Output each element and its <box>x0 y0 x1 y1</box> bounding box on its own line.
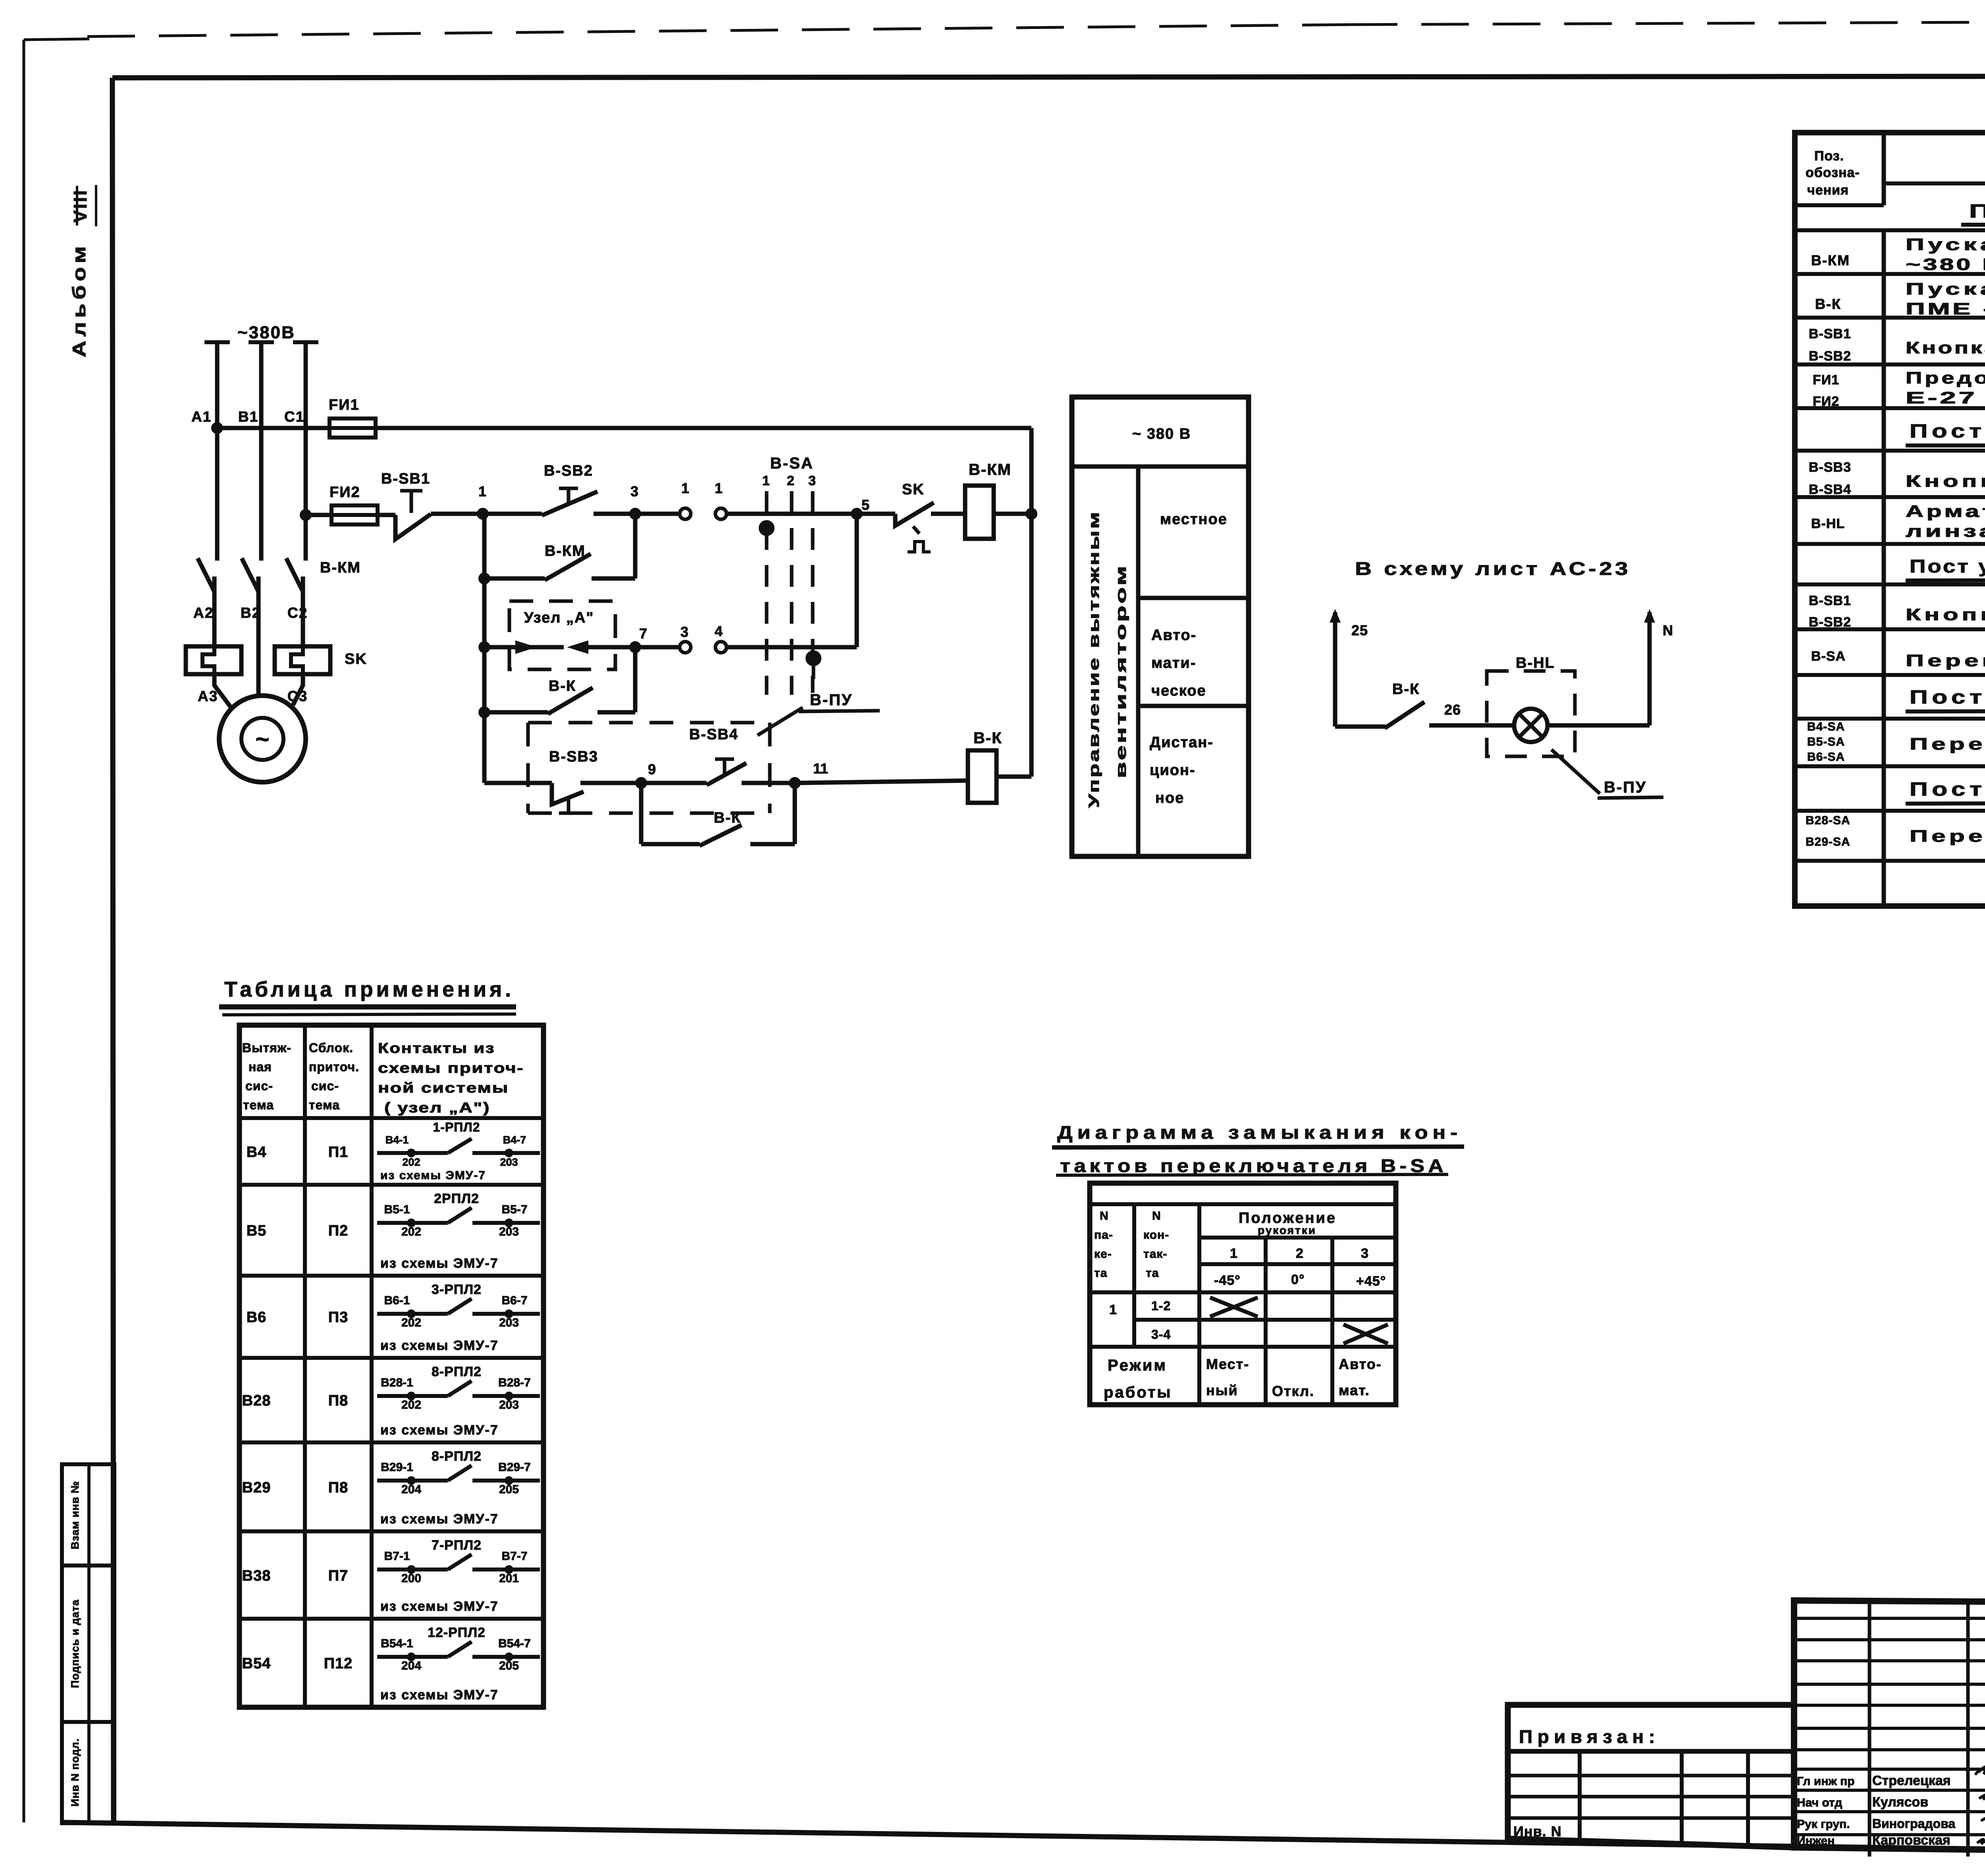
svg-text:3-РПЛ2: 3-РПЛ2 <box>432 1282 482 1297</box>
svg-text:В-SB1: В-SB1 <box>1809 593 1851 608</box>
svg-text:~: ~ <box>255 726 269 752</box>
svg-text:В7-7: В7-7 <box>501 1550 527 1563</box>
svg-text:Пост управления ПП4: Пост управления ПП4 <box>1910 779 1985 800</box>
thermal element SK phase A <box>186 646 241 674</box>
svg-text:В1: В1 <box>238 409 258 425</box>
contact B-K bypass lower <box>639 783 644 844</box>
svg-text:В-КМ: В-КМ <box>1811 252 1850 268</box>
node 5 junction dot <box>851 508 863 520</box>
svg-text:из схемы ЭМУ-7: из схемы ЭМУ-7 <box>380 1599 499 1614</box>
svg-text:~380В: ~380В <box>237 323 295 342</box>
node right bus junction <box>1025 508 1037 520</box>
wire lamp circuit left riser 25 <box>1333 612 1337 644</box>
svg-text:203: 203 <box>499 1316 519 1329</box>
svg-text:Авто-: Авто- <box>1151 627 1197 644</box>
svg-text:местное: местное <box>1160 511 1228 528</box>
node B-PU leader lamp <box>1551 750 1600 794</box>
node B-SA diagram table <box>1090 1183 1396 1405</box>
svg-text:205: 205 <box>499 1659 519 1672</box>
svg-text:В6-7: В6-7 <box>501 1294 527 1307</box>
svg-text:5: 5 <box>861 497 869 513</box>
svg-text:В28-7: В28-7 <box>498 1376 531 1389</box>
frame inner left <box>112 78 114 1823</box>
svg-text:В-HL: В-HL <box>1811 516 1845 531</box>
svg-text:FИ2: FИ2 <box>330 484 360 501</box>
svg-text:Взам инв №: Взам инв № <box>69 1481 81 1549</box>
svg-text:203: 203 <box>500 1156 518 1168</box>
node 11 junction <box>789 777 801 789</box>
wire outer border top dash-dot line <box>87 25 1350 37</box>
svg-text:0°: 0° <box>1291 1272 1305 1287</box>
svg-text:В-КМ: В-КМ <box>545 543 586 559</box>
svg-text:В-К: В-К <box>549 678 576 694</box>
svg-text:205: 205 <box>499 1483 519 1496</box>
svg-text:В-К: В-К <box>1392 681 1420 698</box>
svg-text:25: 25 <box>1351 622 1368 638</box>
svg-text:В6-1: В6-1 <box>384 1294 410 1307</box>
svg-text:П12: П12 <box>324 1655 353 1672</box>
node B-PU dashed enclosure <box>528 721 770 725</box>
svg-text:В28: В28 <box>242 1392 271 1409</box>
svg-text:Сблок.: Сблок. <box>309 1041 353 1055</box>
svg-text:Инв. N: Инв. N <box>1513 1823 1562 1839</box>
left margin stamp boxes <box>62 1464 114 1823</box>
svg-text:ПМЕ - 081, катушка ~380 В.: ПМЕ - 081, катушка ~380 В. <box>1906 299 1985 318</box>
svg-text:В6-SA: В6-SA <box>1807 750 1845 764</box>
terminal circle 1a <box>680 508 691 519</box>
svg-text:Пост управления В-ПУ: Пост управления В-ПУ <box>1910 421 1985 442</box>
svg-text:FИ1: FИ1 <box>329 397 360 413</box>
svg-text:Переключатель: Переключатель <box>1910 735 1985 753</box>
wire node7 down to B-K branch <box>633 647 638 712</box>
svg-text:202: 202 <box>402 1156 420 1168</box>
wire lamp circuit right riser N <box>1648 644 1652 725</box>
wire to switch region <box>727 512 895 516</box>
svg-text:С1: С1 <box>284 409 304 425</box>
svg-text:Кулясов: Кулясов <box>1872 1795 1928 1810</box>
svg-text:линза зеленого цвета: линза зеленого цвета <box>1906 522 1985 540</box>
wire L2 control line with fuse FI2 <box>306 513 331 517</box>
svg-text:В6: В6 <box>247 1309 267 1326</box>
node 9 <box>635 777 647 789</box>
svg-text:+45°: +45° <box>1356 1274 1386 1289</box>
svg-text:3: 3 <box>630 483 638 499</box>
svg-text:В4-7: В4-7 <box>503 1134 526 1146</box>
svg-text:~380 В.: ~380 В. <box>1906 255 1985 274</box>
svg-text:В-КМ: В-КМ <box>969 461 1012 478</box>
svg-text:П2: П2 <box>328 1222 348 1239</box>
svg-text:Вытяж-: Вытяж- <box>242 1041 291 1055</box>
svg-text:П7: П7 <box>328 1568 348 1584</box>
wire distance control line <box>484 781 552 785</box>
svg-text:Управление вытяжным: Управление вытяжным <box>1086 510 1102 808</box>
svg-text:вентилятором: вентилятором <box>1113 564 1129 778</box>
wire right bus down from top line <box>1029 428 1034 514</box>
svg-text:Пускатель магнитный: Пускатель магнитный <box>1906 280 1985 298</box>
svg-text:А1: А1 <box>191 409 212 425</box>
svg-text:Гл инж пр: Гл инж пр <box>1797 1775 1855 1788</box>
svg-text:Переключатель: Переключатель <box>1906 651 1985 670</box>
svg-text:Поз.: Поз. <box>1814 148 1844 164</box>
node 7 <box>629 641 641 653</box>
svg-text:Предохранитель резьбовой: Предохранитель резьбовой <box>1906 368 1985 387</box>
svg-text:А2: А2 <box>193 605 214 621</box>
svg-text:Диаграмма замыкания кон-: Диаграмма замыкания кон- <box>1057 1122 1462 1143</box>
svg-text:2: 2 <box>787 473 794 488</box>
svg-text:из схемы ЭМУ-7: из схемы ЭМУ-7 <box>380 1256 499 1271</box>
svg-text:FИ1: FИ1 <box>1813 372 1839 388</box>
svg-text:В-SB2: В-SB2 <box>544 463 593 479</box>
svg-text:В-SB3: В-SB3 <box>1809 460 1851 475</box>
svg-text:В-SB4: В-SB4 <box>689 726 738 743</box>
svg-text:3-4: 3-4 <box>1151 1327 1171 1342</box>
svg-text:Привязан:: Привязан: <box>1519 1726 1660 1747</box>
terminal circle 4 <box>715 642 727 653</box>
svg-text:В5-7: В5-7 <box>501 1203 527 1216</box>
frame inner top <box>112 76 1985 78</box>
svg-text:1-2: 1-2 <box>1151 1299 1171 1313</box>
svg-text:Пост управления ПП3: Пост управления ПП3 <box>1910 687 1985 708</box>
svg-text:В5-1: В5-1 <box>384 1203 410 1216</box>
svg-text:N: N <box>1663 622 1673 638</box>
svg-text:N: N <box>1100 1209 1109 1222</box>
svg-text:Виноградова: Виноградова <box>1872 1816 1955 1831</box>
svg-text:В2: В2 <box>241 605 261 621</box>
svg-text:так-: так- <box>1143 1247 1167 1261</box>
svg-text:В28-1: В28-1 <box>381 1376 413 1389</box>
svg-text:9: 9 <box>648 761 656 777</box>
svg-text:200: 200 <box>401 1572 421 1585</box>
svg-text:кон-: кон- <box>1143 1228 1169 1242</box>
svg-text:Откл.: Откл. <box>1272 1383 1314 1399</box>
svg-text:N: N <box>1152 1209 1161 1222</box>
contact B-KM main phase C <box>286 558 303 592</box>
node application table <box>239 1025 543 1707</box>
contact B-KM main phase A <box>198 558 214 592</box>
svg-text:В4: В4 <box>247 1144 267 1161</box>
svg-text:обозна-: обозна- <box>1806 165 1860 180</box>
svg-text:мат.: мат. <box>1339 1382 1370 1398</box>
svg-text:В29-1: В29-1 <box>381 1461 413 1474</box>
svg-text:1: 1 <box>762 473 770 488</box>
svg-text:Инжен: Инжен <box>1797 1834 1835 1847</box>
wire heater outputs to motor <box>214 674 231 708</box>
svg-text:В-SA: В-SA <box>1811 649 1846 664</box>
svg-text:Контакты из: Контакты из <box>378 1040 495 1056</box>
svg-text:2РПЛ2: 2РПЛ2 <box>434 1191 479 1206</box>
svg-text:SK: SK <box>902 481 925 498</box>
svg-text:работы: работы <box>1104 1384 1172 1401</box>
svg-text:Авто-: Авто- <box>1339 1356 1382 1372</box>
lamp B-HL <box>1514 709 1548 742</box>
node B-HL dashed box <box>1487 671 1575 756</box>
svg-text:1: 1 <box>478 483 486 499</box>
svg-text:В-SB4: В-SB4 <box>1809 482 1851 497</box>
svg-text:тема: тема <box>243 1098 274 1112</box>
wire phase C bus <box>304 342 308 561</box>
svg-text:1: 1 <box>681 480 689 496</box>
wire uzel A line <box>478 641 490 653</box>
svg-text:1: 1 <box>715 480 723 496</box>
svg-text:3: 3 <box>808 473 816 488</box>
svg-text:П8: П8 <box>328 1479 348 1496</box>
node title block <box>1794 1600 1985 1857</box>
svg-text:Инв N подл.: Инв N подл. <box>69 1738 81 1807</box>
svg-text:Кнопка управления: Кнопка управления <box>1906 472 1985 490</box>
svg-text:В-ПУ: В-ПУ <box>810 691 853 709</box>
svg-text:11: 11 <box>813 760 828 777</box>
switch B-SA position dot packet2 <box>806 650 821 666</box>
wire node4 to vertical <box>727 645 857 650</box>
svg-text:202: 202 <box>401 1316 421 1329</box>
svg-text:3: 3 <box>680 624 688 640</box>
svg-text:из схемы ЭМУ-7: из схемы ЭМУ-7 <box>380 1512 499 1527</box>
svg-text:В-SB1: В-SB1 <box>1809 326 1851 341</box>
svg-text:В-SB3: В-SB3 <box>549 748 598 765</box>
svg-text:В-SB2: В-SB2 <box>1809 349 1851 364</box>
wire phases down to heaters <box>212 576 217 646</box>
svg-text:В-SB2: В-SB2 <box>1809 615 1851 630</box>
svg-text:~ 380 В: ~ 380 В <box>1132 426 1191 442</box>
svg-text:приточ.: приточ. <box>309 1060 359 1074</box>
svg-text:из схемы ЭМУ-7: из схемы ЭМУ-7 <box>380 1687 499 1702</box>
svg-text:ное: ное <box>1155 790 1184 806</box>
svg-text:мати-: мати- <box>1151 655 1196 671</box>
svg-text:202: 202 <box>401 1225 421 1238</box>
contact B-K aux upper <box>478 706 490 718</box>
svg-text:В-К: В-К <box>1815 296 1841 312</box>
svg-text:203: 203 <box>499 1225 519 1238</box>
svg-text:ная: ная <box>249 1060 272 1074</box>
svg-text:3: 3 <box>1361 1246 1370 1261</box>
svg-text:П1: П1 <box>328 1144 348 1161</box>
svg-text:Альбом: Альбом <box>69 242 89 357</box>
svg-text:рукоятки: рукоятки <box>1258 1224 1316 1236</box>
svg-text:7: 7 <box>639 625 647 642</box>
svg-text:Режим: Режим <box>1108 1357 1167 1374</box>
svg-text:В54-7: В54-7 <box>498 1637 531 1650</box>
wire phase A bus <box>215 342 220 561</box>
svg-text:8-РПЛ2: 8-РПЛ2 <box>432 1449 482 1464</box>
svg-text:Дистан-: Дистан- <box>1150 734 1214 751</box>
svg-text:В-HL: В-HL <box>1516 655 1555 671</box>
svg-text:та: та <box>1146 1267 1159 1280</box>
svg-text:ный: ный <box>1206 1382 1238 1398</box>
svg-text:Е-27 Iпл.вст.=6а: Е-27 Iпл.вст.=6а <box>1906 388 1985 407</box>
svg-text:Кнопка управления: Кнопка управления <box>1906 605 1985 624</box>
svg-text:26: 26 <box>1444 702 1461 718</box>
contact B-KM main phase B <box>242 558 258 592</box>
svg-text:В29-7: В29-7 <box>498 1461 531 1474</box>
svg-text:из схемы ЭМУ-7: из схемы ЭМУ-7 <box>380 1423 499 1438</box>
wire right bus <box>1029 514 1034 777</box>
wire phase B bus <box>259 342 264 561</box>
svg-text:В-ПУ: В-ПУ <box>1604 779 1647 796</box>
node 3 <box>629 508 641 520</box>
svg-text:8-РПЛ2: 8-РПЛ2 <box>432 1364 482 1379</box>
svg-text:А3: А3 <box>198 688 218 704</box>
node B-PU label leader <box>757 708 803 735</box>
svg-text:1-РПЛ2: 1-РПЛ2 <box>433 1120 480 1134</box>
node privyazan block <box>1508 1705 1794 1847</box>
terminal circle 3 <box>680 642 691 653</box>
node A1 junction <box>211 422 223 434</box>
svg-text:Карповская: Карповская <box>1872 1833 1950 1848</box>
node uzel A dashed box <box>509 601 615 669</box>
svg-text:2: 2 <box>1296 1246 1305 1261</box>
contact B-KM aux (self-hold) <box>478 573 490 584</box>
svg-text:1: 1 <box>1109 1302 1118 1317</box>
svg-text:Стрелецкая: Стрелецкая <box>1872 1773 1951 1788</box>
svg-text:Подпись и дата: Подпись и дата <box>69 1599 81 1688</box>
svg-text:FИ2: FИ2 <box>1813 394 1839 409</box>
svg-text:В5-SA: В5-SA <box>1807 735 1845 748</box>
svg-text:П8: П8 <box>328 1392 348 1409</box>
svg-text:Пост управления В38-ПУ1(В54-ПУ: Пост управления В38-ПУ1(В54-ПУ1) <box>1910 556 1985 576</box>
svg-text:тактов переключателя В-SA: тактов переключателя В-SA <box>1060 1155 1447 1176</box>
svg-text:сис-: сис- <box>311 1079 339 1093</box>
svg-text:В29: В29 <box>242 1479 271 1496</box>
svg-text:из схемы ЭМУ-7: из схемы ЭМУ-7 <box>380 1169 486 1182</box>
svg-text:Таблица применения.: Таблица применения. <box>224 978 514 1001</box>
svg-text:VIII: VIII <box>70 189 91 222</box>
svg-text:тема: тема <box>309 1098 340 1112</box>
switch B-SA position dot packet1 <box>759 520 775 536</box>
svg-text:В7-1: В7-1 <box>384 1550 410 1563</box>
svg-text:ческое: ческое <box>1151 683 1206 699</box>
svg-text:Рук груп.: Рук груп. <box>1797 1818 1850 1831</box>
svg-text:1: 1 <box>1230 1246 1239 1261</box>
svg-text:В-SA: В-SA <box>770 455 814 472</box>
svg-text:( узел „А"): ( узел „А") <box>384 1099 490 1116</box>
svg-text:сис-: сис- <box>245 1079 273 1093</box>
svg-text:201: 201 <box>499 1572 519 1585</box>
node 1 <box>477 508 489 520</box>
svg-text:-45°: -45° <box>1214 1273 1241 1288</box>
svg-text:В5: В5 <box>247 1222 267 1239</box>
svg-text:па-: па- <box>1094 1228 1113 1242</box>
svg-text:203: 203 <box>499 1398 519 1411</box>
contact B-K lamp <box>1335 725 1386 729</box>
svg-text:7-РПЛ2: 7-РПЛ2 <box>432 1538 482 1553</box>
svg-text:SK: SK <box>345 651 367 667</box>
svg-text:В4-SA: В4-SA <box>1807 720 1845 733</box>
svg-text:В-SB1: В-SB1 <box>381 470 430 487</box>
svg-text:Переключатель: Переключатель <box>1910 827 1985 845</box>
wire left bus from node 1 <box>482 514 487 783</box>
svg-text:В4-1: В4-1 <box>385 1134 409 1146</box>
svg-text:Пускатель магнитный: Пускатель магнитный <box>1906 235 1985 254</box>
svg-text:204: 204 <box>401 1659 421 1672</box>
svg-text:В-К: В-К <box>973 729 1002 747</box>
svg-text:С2: С2 <box>287 605 308 621</box>
svg-text:204: 204 <box>401 1483 421 1496</box>
svg-text:В54-1: В54-1 <box>381 1637 413 1650</box>
wire L1 top line with fuse FI1 <box>217 426 329 430</box>
svg-text:Кнопка управления КУ92-В3ТЧ-В: Кнопка управления КУ92-В3ТЧ-В <box>1906 338 1985 357</box>
svg-text:цион-: цион- <box>1150 762 1196 779</box>
svg-text:4: 4 <box>715 623 723 639</box>
svg-text:ке-: ке- <box>1094 1247 1112 1261</box>
node specification table <box>1795 133 1985 906</box>
wire outer border left <box>23 40 25 1822</box>
node control-mode table <box>1072 397 1249 856</box>
svg-text:схемы приточ-: схемы приточ- <box>378 1060 524 1076</box>
svg-text:В54: В54 <box>242 1655 271 1672</box>
svg-text:та: та <box>1094 1267 1107 1280</box>
svg-text:В29-SA: В29-SA <box>1806 835 1850 848</box>
svg-text:В-КМ: В-КМ <box>320 559 361 576</box>
svg-text:Арматура сигнальная: Арматура сигнальная <box>1906 502 1985 521</box>
svg-text:Мест-: Мест- <box>1206 1356 1249 1372</box>
motor M <box>219 696 306 782</box>
svg-text:202: 202 <box>401 1398 421 1411</box>
svg-text:Нач отд: Нач отд <box>1797 1796 1842 1809</box>
node C1 junction <box>300 509 312 521</box>
svg-text:В28-SA: В28-SA <box>1806 814 1850 827</box>
frame inner bottom <box>62 1822 1985 1857</box>
svg-text:В схему лист АС-23: В схему лист АС-23 <box>1355 558 1631 579</box>
svg-text:12-РПЛ2: 12-РПЛ2 <box>428 1625 486 1640</box>
svg-text:чения: чения <box>1807 183 1849 198</box>
terminal circle 1b <box>715 508 727 519</box>
svg-text:ной системы: ной системы <box>378 1080 509 1096</box>
svg-text:П3: П3 <box>328 1309 348 1326</box>
thermal element SK phase C <box>275 646 330 674</box>
svg-text:Узел „А": Узел „А" <box>524 609 594 626</box>
svg-text:из схемы ЭМУ-7: из схемы ЭМУ-7 <box>380 1338 499 1353</box>
svg-text:По месту: По месту <box>1969 201 1985 222</box>
svg-text:В38: В38 <box>242 1568 271 1584</box>
